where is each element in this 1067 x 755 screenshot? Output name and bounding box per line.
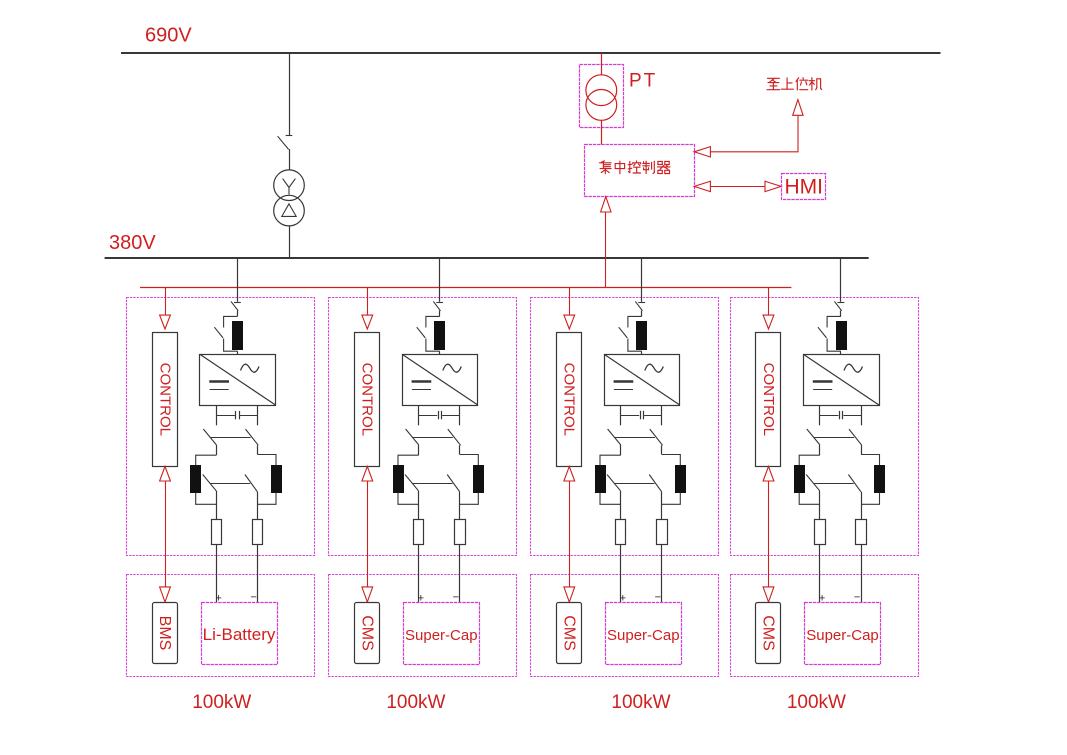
transformer T1 secondary winding (delta) [274,195,305,226]
svg-text:CONTROL: CONTROL [561,363,578,436]
svg-text:−: − [655,592,661,604]
unit 2 wire control bus drop [367,287,369,315]
unit 2 breaker contact tick [436,302,443,304]
unit 3 left leg midpoint wire [620,445,622,455]
transformer T1 primary winding (Y) [274,170,305,201]
arrowhead into controller from HMI link [694,181,710,191]
unit 4 wire breaker to fuse [840,311,842,317]
unit 4 AC/DC converter U4 box [804,355,880,406]
svg-text:Li-Battery: Li-Battery [203,625,276,644]
unit 2 right leg midpoint wire [459,445,461,454]
unit 2 chopper lower cross link [413,483,453,485]
unit 4 arrowhead up into CONTROL bottom [763,466,774,481]
unit 4 right leg midpoint wire [861,445,863,454]
HMI box [782,174,826,200]
unit 4 left output wire [819,491,821,520]
breaker QF0 blade [278,136,289,149]
unit 1 negative wire to Li-Battery [257,545,259,603]
unit 3 chopper lower cross link [615,483,655,485]
wire controller down to control bus [605,212,607,287]
unit 2 storage enclosure box [329,575,517,677]
unit 1 DC link wire left [216,405,218,425]
unit 2 DC link capacitor C2 [418,415,437,417]
unit 1 chopper lower cross link [210,483,250,485]
unit 2 CONTROL box [355,333,380,467]
unit 1 left leg midpoint wire [216,445,218,455]
unit 2 arrowhead up into CONTROL bottom [362,466,373,481]
svg-text:100kW: 100kW [386,692,445,713]
unit 3 right output wire [661,492,663,520]
bus 380V [105,257,869,259]
unit 4 storage enclosure box [731,575,919,677]
unit 1 wire control bus drop [165,287,167,315]
transformer T1 delta symbol [282,204,296,217]
svg-text:CMS: CMS [359,615,376,651]
unit 4 arrowhead down into CMS [763,587,774,602]
svg-text:CONTROL: CONTROL [760,363,777,436]
unit 4 chopper upper-left IGBT blade [807,429,820,445]
unit 1 right output wire [257,492,259,520]
unit 4 fuse FU4 body [837,322,847,350]
svg-text:PT: PT [629,71,657,92]
unit 2 left output wire [418,491,420,520]
unit 2 converter AC sine symbol [443,364,462,372]
unit 2 chopper lower-right IGBT blade [447,475,460,492]
unit 3 control wire CONTROL to CMS [569,481,571,587]
unit 4 converter AC sine symbol [844,364,863,372]
unit 3 CONTROL box [557,333,582,467]
unit 1 right DC fuse body [253,520,263,545]
red control bus [140,287,791,289]
unit 1 left DC fuse body [212,520,222,545]
label 集中控制器 [600,161,671,174]
unit 1 arrowhead down into BMS [160,587,171,602]
unit 3 right reactor L3b body [676,466,686,493]
unit 2 chopper upper-left IGBT blade [406,429,419,445]
unit 3 chopper upper-left IGBT blade [608,429,621,445]
unit 1 chopper lower-left IGBT blade [203,475,217,491]
unit 4 arrowhead down into CONTROL [763,315,774,329]
unit 3 DC link wire right [661,405,663,425]
unit 1 control wire CONTROL to BMS [165,481,167,587]
unit 3 right reactor return wire [662,493,681,505]
unit 4 right side branch to reactor [861,455,880,466]
unit 3 positive wire to Super-Cap [620,545,622,603]
unit 2 right reactor L2b body [474,466,484,493]
unit 1 BMS box [153,603,178,664]
unit 1 arrowhead down into CONTROL [160,315,171,329]
unit 3 wire 380V bus feeder [641,258,643,301]
unit 3 left DC fuse body [616,520,626,545]
unit 1 AC/DC converter U1 box [200,355,276,406]
unit 1 chopper lower-right IGBT blade [245,475,258,492]
svg-text:−: − [854,592,860,604]
svg-text:100kW: 100kW [192,692,251,713]
unit 2 AC/DC converter U2 box [403,355,478,406]
unit 4 control wire CONTROL to CMS [768,481,770,587]
unit 3 wire control bus drop [569,287,571,315]
svg-text:380V: 380V [109,232,156,254]
unit 4 chopper lower cross link [814,483,854,485]
unit 4 right reactor return wire [861,493,880,505]
unit 3 converter DC symbol [614,380,634,383]
unit 1 right reactor L1b body [272,466,282,493]
unit 2 Super-Cap box [404,603,480,665]
unit 4 Super-Cap box [805,603,881,665]
unit 2 right reactor return wire [460,493,479,505]
arrowhead into controller right edge from host link [694,147,710,157]
unit 1 fuse FU1 body [233,322,243,350]
unit 4 right output wire [861,492,863,520]
PT winding circle upper [586,75,617,106]
unit 3 fuse FU3 body [637,322,647,350]
wire breaker to transformer [289,149,291,170]
unit 2 wire 380V bus feeder [439,258,441,301]
unit 2 chopper upper-right IGBT blade [448,429,461,445]
unit 1 power stage enclosure box [127,298,315,556]
unit 4 CMS box [756,603,781,664]
unit 3 arrowhead up into CONTROL bottom [564,466,575,481]
unit 3 CMS box [557,603,582,664]
unit 4 wire fuse to converter [840,351,842,354]
svg-text:CONTROL: CONTROL [156,363,173,436]
unit 1 arrowhead up into CONTROL bottom [160,466,171,481]
unit 4 chopper upper cross link [814,437,854,439]
unit 1 storage enclosure box [127,575,315,677]
arrowhead up to host computer [793,100,803,116]
unit 4 CONTROL box [756,333,781,467]
unit 3 bypass switch blade [619,327,628,338]
unit 2 wire breaker to fuse [439,311,441,317]
svg-text:−: − [453,592,459,604]
unit 2 converter diagonal [402,354,478,405]
unit 1 wire fuse to converter [237,351,239,354]
unit 2 positive wire to Super-Cap [418,545,420,603]
unit 4 breaker blade [835,301,842,310]
unit 4 chopper lower-right IGBT blade [848,475,861,492]
unit 2 left reactor return wire [398,493,419,505]
unit 3 chopper lower-right IGBT blade [649,475,662,492]
unit 2 right DC fuse body [455,520,466,545]
unit 1 breaker contact tick [234,302,241,304]
unit 3 right side branch to reactor [662,455,681,466]
svg-text:HMI: HMI [784,176,823,199]
svg-text:BMS: BMS [156,616,173,651]
arrowhead into HMI [765,181,781,191]
unit 1 right reactor return wire [258,493,277,505]
PT winding circle lower [586,90,617,121]
bus 690V [121,52,941,54]
unit 1 wire breaker to fuse [237,311,239,317]
svg-text:690V: 690V [145,25,192,47]
unit 2 right output wire [459,492,461,520]
unit 3 chopper upper cross link [615,437,655,439]
unit 1 DC link wire right [257,405,259,425]
unit 3 left reactor L3a body [596,466,606,493]
unit 3 storage enclosure box [531,575,719,677]
unit 1 bypass switch blade [214,327,223,338]
unit 3 DC link wire left [620,405,622,425]
unit 1 Li-Battery box [202,603,278,665]
unit 4 converter DC symbol [813,380,833,383]
unit 4 breaker contact tick [838,302,845,304]
wire controller to host computer [710,115,798,152]
svg-text:−: − [250,592,256,604]
unit 4 wire 380V bus feeder [840,258,842,301]
unit 4 bypass switch blade [818,327,827,338]
unit 2 power stage enclosure box [329,298,517,556]
unit 2 DC link wire right [459,405,461,425]
unit 2 arrowhead down into CONTROL [362,315,373,329]
unit 2 left side branch to reactor [398,455,419,465]
unit 1 wire 380V bus feeder [237,258,239,301]
unit 1 converter AC sine symbol [241,364,260,372]
unit 2 arrowhead down into CMS [362,587,373,602]
unit 2 chopper upper cross link [413,437,453,439]
unit 3 left side branch to reactor [600,455,621,465]
unit 1 chopper upper-left IGBT blade [203,429,216,445]
unit 4 power stage enclosure box [731,298,919,556]
unit 2 left reactor L2a body [394,466,404,493]
unit 4 left reactor return wire [799,493,820,505]
wire controller to HMI [710,186,765,188]
unit 4 DC link capacitor C4 [820,415,839,417]
svg-text:CMS: CMS [760,615,777,651]
unit 3 wire fuse to converter [641,351,643,354]
unit 4 right DC fuse body [856,520,867,545]
svg-text:CONTROL: CONTROL [359,363,376,436]
unit 4 negative wire to Super-Cap [861,545,863,603]
unit 3 converter AC sine symbol [645,364,664,372]
unit 4 chopper lower-left IGBT blade [806,475,820,491]
unit 2 bypass switch branch [426,316,440,351]
unit 3 Super-Cap box [606,603,682,665]
unit 3 right DC fuse body [657,520,668,545]
unit 3 wire breaker to fuse [641,311,643,317]
unit 3 power stage enclosure box [531,298,719,556]
unit 3 right leg midpoint wire [661,445,663,454]
unit 4 right reactor L4b body [875,466,885,493]
unit 3 AC/DC converter U3 box [605,355,680,406]
unit 2 CMS box [355,603,380,664]
unit 3 bypass switch branch [628,316,642,351]
unit 3 breaker contact tick [638,302,645,304]
unit 2 fuse FU2 body [435,322,445,350]
unit 1 right leg midpoint wire [257,445,259,454]
unit 1 left reactor L1a body [191,466,201,493]
unit 2 chopper lower-left IGBT blade [405,475,419,491]
wire 690V bus into PT [601,53,603,75]
unit 4 wire control bus drop [768,287,770,315]
unit 1 left output wire [216,491,218,520]
unit 3 converter diagonal [604,354,680,405]
unit 2 right side branch to reactor [460,455,479,466]
unit 4 chopper upper-right IGBT blade [849,429,862,445]
unit 1 DC link capacitor C1 [216,415,235,417]
unit 4 DC link wire left [819,405,821,425]
unit 4 DC link wire right [861,405,863,425]
unit 2 bypass switch blade [417,327,426,338]
unit 3 negative wire to Super-Cap [661,545,663,603]
unit 1 chopper upper cross link [211,437,251,439]
unit 2 wire fuse to converter [439,351,441,354]
svg-text:Super-Cap: Super-Cap [405,627,478,644]
unit 2 control wire CONTROL to CMS [367,481,369,587]
svg-text:100kW: 100kW [611,692,670,713]
unit 4 converter diagonal [803,354,879,405]
svg-text:100kW: 100kW [787,692,846,713]
arrowhead up into controller bottom [601,197,611,212]
unit 1 converter diagonal [200,354,276,405]
svg-text:Super-Cap: Super-Cap [806,627,879,644]
unit 4 left side branch to reactor [799,455,820,465]
wire 690V bus to transformer T1 [289,53,291,135]
unit 3 left output wire [620,491,622,520]
unit 2 converter DC symbol [412,380,432,383]
unit 1 right side branch to reactor [258,455,277,466]
unit 4 left DC fuse body [815,520,826,545]
PT potential transformer box [580,65,624,128]
unit 2 left DC fuse body [414,520,424,545]
unit 2 left leg midpoint wire [418,445,420,455]
unit 4 left reactor L4a body [795,466,805,493]
unit 4 positive wire to Super-Cap [819,545,821,603]
unit 3 chopper upper-right IGBT blade [650,429,663,445]
unit 2 DC link wire left [418,405,420,425]
wire PT to central controller [601,120,603,144]
unit 1 left reactor return wire [196,493,217,505]
unit 1 positive wire to Li-Battery [216,545,218,603]
svg-text:CMS: CMS [561,615,578,651]
unit 3 chopper lower-left IGBT blade [607,475,621,491]
unit 3 left reactor return wire [600,493,621,505]
unit 1 chopper upper-right IGBT blade [246,429,259,445]
transformer T1 Y symbol [283,179,296,195]
unit 3 DC link capacitor C3 [620,415,639,417]
unit 1 left side branch to reactor [196,455,217,465]
unit 3 breaker blade [635,301,642,310]
unit 1 bypass switch branch [224,316,238,351]
unit 1 breaker blade [231,301,238,310]
svg-text:Super-Cap: Super-Cap [607,627,680,644]
unit 3 arrowhead down into CONTROL [564,315,575,329]
unit 2 breaker blade [433,301,440,310]
unit 4 bypass switch branch [827,316,841,351]
unit 1 converter DC symbol [209,380,229,383]
central controller box 集中控制器 [585,145,695,197]
unit 3 arrowhead down into CMS [564,587,575,602]
unit 4 left leg midpoint wire [819,445,821,455]
unit 2 negative wire to Super-Cap [459,545,461,603]
breaker QF0 contact tick [286,135,293,137]
label 至上位机 (to host computer) [767,78,822,90]
wire transformer to 380V bus [289,226,291,259]
unit 1 CONTROL box [153,333,178,467]
